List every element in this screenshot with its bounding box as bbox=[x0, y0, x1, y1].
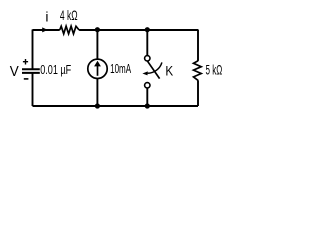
wire left lower segment bbox=[32, 73, 34, 106]
svg-text:4 kΩ: 4 kΩ bbox=[60, 8, 78, 23]
resistor R1 4k zigzag bbox=[60, 26, 79, 34]
wire right lower segment bbox=[197, 80, 199, 106]
svg-text:0.01 µF: 0.01 µF bbox=[40, 62, 71, 77]
switch bottom terminal circle bbox=[145, 83, 150, 88]
current arrow i on top wire bbox=[42, 27, 48, 32]
wire current source branch upper bbox=[96, 30, 98, 59]
node dot bottom of current source branch bbox=[95, 103, 100, 108]
resistor R2 5k zigzag bbox=[194, 61, 202, 81]
wire top-middle segment bbox=[79, 29, 198, 31]
svg-text:V: V bbox=[10, 64, 19, 80]
switch top terminal circle bbox=[145, 56, 150, 61]
node dot bottom of switch branch bbox=[145, 103, 150, 108]
current source arrow head bbox=[94, 61, 101, 67]
plus sign polarity bbox=[23, 59, 28, 65]
wire switch branch lower bbox=[146, 88, 148, 106]
svg-text:10mA: 10mA bbox=[110, 61, 131, 76]
current source arrow shaft bbox=[97, 66, 99, 76]
wire right upper segment bbox=[197, 30, 199, 61]
capacitor C1 top plate bbox=[22, 68, 40, 70]
svg-text:i: i bbox=[45, 9, 48, 25]
switch blade bbox=[148, 61, 160, 78]
node dot top of current source branch bbox=[95, 27, 100, 32]
wire switch branch upper bbox=[146, 30, 148, 56]
svg-text:5 kΩ: 5 kΩ bbox=[206, 62, 223, 77]
node dot top of switch branch bbox=[145, 27, 150, 32]
wire bottom bbox=[33, 105, 199, 107]
svg-text:K: K bbox=[165, 62, 173, 78]
wire left upper segment bbox=[32, 30, 34, 70]
current source I1 circle bbox=[88, 59, 107, 78]
wire current source branch lower bbox=[96, 79, 98, 107]
wire top-left segment bbox=[33, 29, 60, 31]
switch motion arc bbox=[148, 62, 162, 73]
minus sign polarity bbox=[24, 78, 29, 80]
capacitor C1 bottom plate bbox=[22, 72, 40, 74]
switch motion arrow head bbox=[142, 71, 147, 75]
